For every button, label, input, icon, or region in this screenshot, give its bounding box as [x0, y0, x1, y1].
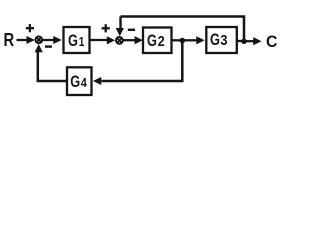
svg-text:G: G [70, 72, 80, 91]
block G1 [64, 27, 90, 53]
svg-text:R: R [4, 29, 15, 50]
plus sign at S2 input [102, 24, 110, 32]
node N1 (takeoff point after G2) [180, 38, 186, 44]
wire N1 down to bottom feedback line into G4 [93, 41, 182, 86]
minus sign at S1 feedback input [45, 45, 52, 47]
wire G2 to node N1 [172, 39, 183, 41]
block G3 [206, 27, 237, 53]
svg-text:2: 2 [158, 32, 165, 49]
wire G3 to node N2 [237, 40, 244, 42]
wire N1 to block G3 [182, 36, 204, 44]
wire G1 to summing junction S2 [90, 36, 116, 44]
wire R to summing junction S1 [17, 36, 35, 44]
wire G4 output to S1 (left, up, arrow into S1 bottom) [35, 44, 67, 81]
node N2 (takeoff point after G3) [241, 39, 247, 45]
svg-text:G: G [68, 31, 78, 50]
wire S1 to block G1 [43, 36, 62, 44]
minus sign at S2 top feedback input [128, 29, 135, 31]
wire N2 to output C [244, 37, 262, 45]
node C (output label) [266, 33, 278, 51]
svg-text:G: G [210, 30, 220, 49]
node R (input label) [4, 29, 15, 50]
block G4 [67, 67, 92, 95]
svg-text:C: C [266, 33, 278, 51]
block G2 [143, 28, 172, 54]
svg-text:3: 3 [220, 31, 227, 48]
summing junction S1 [35, 36, 42, 43]
wire top feedback loop (N2 up, across to S2 corner) [121, 17, 245, 42]
svg-text:G: G [147, 31, 157, 50]
plus sign at S1 input [26, 24, 34, 32]
wire top feedback into S2 (down arrow) [116, 17, 124, 37]
svg-text:4: 4 [81, 75, 87, 90]
summing junction S2 [116, 37, 123, 44]
svg-text:1: 1 [79, 36, 85, 49]
wire S2 to block G2 [123, 36, 142, 44]
